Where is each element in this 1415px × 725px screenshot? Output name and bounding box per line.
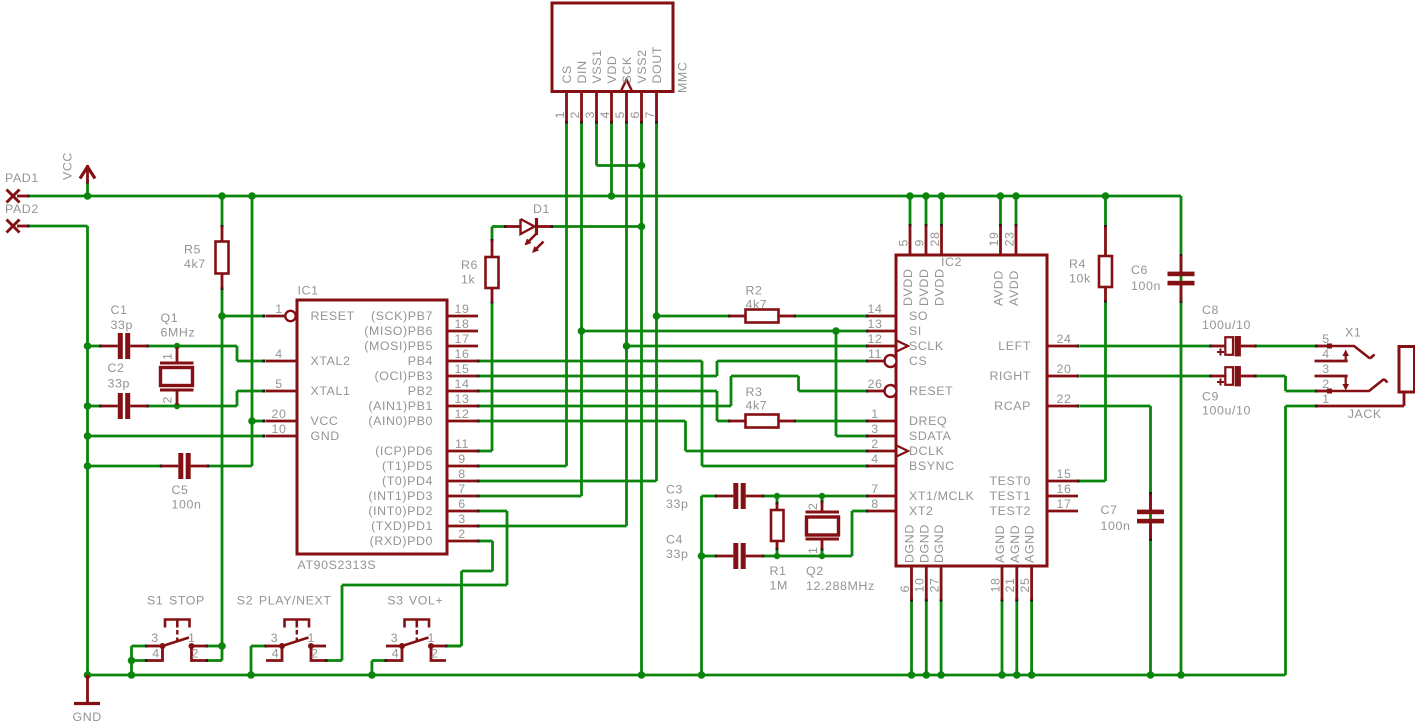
svg-text:17: 17 xyxy=(1057,497,1072,511)
svg-text:18: 18 xyxy=(455,317,470,331)
svg-text:11: 11 xyxy=(455,437,469,451)
svg-text:28: 28 xyxy=(928,232,942,247)
svg-text:13: 13 xyxy=(868,317,883,331)
svg-text:12.288MHz: 12.288MHz xyxy=(806,579,875,593)
svg-text:IC1: IC1 xyxy=(298,284,319,298)
svg-text:MMC: MMC xyxy=(676,62,690,93)
svg-text:(T0)PD4: (T0)PD4 xyxy=(382,474,433,488)
svg-text:8: 8 xyxy=(458,467,466,481)
svg-text:VCC: VCC xyxy=(311,414,339,428)
svg-text:RIGHT: RIGHT xyxy=(989,369,1031,383)
svg-text:7: 7 xyxy=(643,111,657,119)
svg-text:4k7: 4k7 xyxy=(746,399,768,413)
svg-text:21: 21 xyxy=(1003,578,1017,593)
svg-text:C3: C3 xyxy=(666,483,683,497)
svg-text:C7: C7 xyxy=(1101,503,1118,517)
svg-text:AVDD: AVDD xyxy=(1007,270,1021,306)
svg-text:RESET: RESET xyxy=(311,309,355,323)
svg-text:6: 6 xyxy=(628,111,642,119)
svg-text:R2: R2 xyxy=(746,284,763,298)
svg-text:2: 2 xyxy=(806,503,820,511)
svg-text:S3: S3 xyxy=(387,594,403,608)
svg-text:13: 13 xyxy=(455,392,470,406)
svg-text:7: 7 xyxy=(458,482,466,496)
svg-text:4: 4 xyxy=(392,647,400,661)
svg-text:9: 9 xyxy=(912,239,926,247)
svg-text:SI: SI xyxy=(909,324,922,338)
svg-text:23: 23 xyxy=(1002,232,1016,247)
svg-text:2: 2 xyxy=(311,647,319,661)
svg-text:5: 5 xyxy=(896,239,910,247)
svg-text:(ICP)PD6: (ICP)PD6 xyxy=(375,444,433,458)
svg-text:PB4: PB4 xyxy=(408,354,433,368)
svg-text:AVDD: AVDD xyxy=(992,270,1006,306)
svg-text:(MOSI)PB5: (MOSI)PB5 xyxy=(364,339,433,353)
svg-text:4k7: 4k7 xyxy=(746,298,768,312)
svg-text:100n: 100n xyxy=(1101,519,1131,533)
svg-text:AT90S2313S: AT90S2313S xyxy=(298,558,377,572)
svg-text:4: 4 xyxy=(275,347,283,361)
svg-text:GND: GND xyxy=(311,429,340,443)
svg-text:1: 1 xyxy=(427,631,435,645)
svg-text:26: 26 xyxy=(868,377,883,391)
svg-text:22: 22 xyxy=(1057,392,1072,406)
svg-text:VSS1: VSS1 xyxy=(590,49,604,83)
svg-text:R1: R1 xyxy=(770,564,787,578)
svg-text:C9: C9 xyxy=(1202,390,1219,404)
svg-text:15: 15 xyxy=(1057,467,1072,481)
svg-text:8: 8 xyxy=(871,497,879,511)
svg-text:C4: C4 xyxy=(666,533,683,547)
svg-text:33p: 33p xyxy=(108,377,130,391)
svg-text:C6: C6 xyxy=(1131,263,1148,277)
svg-text:SDATA: SDATA xyxy=(909,429,952,443)
svg-text:(RXD)PD0: (RXD)PD0 xyxy=(370,534,433,548)
svg-text:4: 4 xyxy=(871,452,879,466)
svg-text:4k7: 4k7 xyxy=(184,257,206,271)
svg-text:16: 16 xyxy=(1057,482,1072,496)
svg-text:VOL+: VOL+ xyxy=(409,594,443,608)
svg-text:6: 6 xyxy=(458,497,466,511)
svg-text:DIN: DIN xyxy=(575,60,589,83)
svg-text:CS: CS xyxy=(560,65,574,83)
svg-text:RCAP: RCAP xyxy=(994,399,1031,413)
svg-text:3: 3 xyxy=(391,631,399,645)
svg-text:DGND: DGND xyxy=(932,524,946,563)
svg-text:4: 4 xyxy=(272,647,280,661)
svg-text:VDD: VDD xyxy=(605,56,619,84)
svg-text:C8: C8 xyxy=(1202,303,1219,317)
svg-text:Q1: Q1 xyxy=(161,311,179,325)
svg-text:(SCK)PB7: (SCK)PB7 xyxy=(371,309,433,323)
svg-text:2: 2 xyxy=(871,437,879,451)
svg-text:(INT0)PD2: (INT0)PD2 xyxy=(368,504,433,518)
svg-text:17: 17 xyxy=(455,332,470,346)
svg-text:R5: R5 xyxy=(184,243,201,257)
svg-text:10: 10 xyxy=(913,578,927,593)
svg-text:(TXD)PD1: (TXD)PD1 xyxy=(371,519,433,533)
svg-text:5: 5 xyxy=(275,377,283,391)
svg-text:TEST2: TEST2 xyxy=(989,504,1031,518)
svg-text:SCK: SCK xyxy=(620,56,634,83)
svg-text:(T1)PD5: (T1)PD5 xyxy=(382,459,433,473)
svg-text:7: 7 xyxy=(871,482,879,496)
svg-text:JACK: JACK xyxy=(1348,407,1382,421)
svg-text:3: 3 xyxy=(583,111,597,119)
svg-text:1: 1 xyxy=(275,302,283,316)
svg-text:1: 1 xyxy=(1322,392,1330,406)
svg-text:SCLK: SCLK xyxy=(909,339,944,353)
svg-text:2: 2 xyxy=(1322,377,1330,391)
svg-text:3: 3 xyxy=(271,631,279,645)
svg-text:XTAL1: XTAL1 xyxy=(311,384,351,398)
svg-text:3: 3 xyxy=(871,422,879,436)
svg-text:20: 20 xyxy=(1057,362,1072,376)
svg-text:Q2: Q2 xyxy=(806,564,824,578)
svg-text:15: 15 xyxy=(455,362,470,376)
svg-text:12: 12 xyxy=(455,407,470,421)
svg-text:D1: D1 xyxy=(533,202,550,216)
svg-text:XTAL2: XTAL2 xyxy=(311,354,351,368)
svg-text:TEST0: TEST0 xyxy=(989,474,1031,488)
svg-text:DREQ: DREQ xyxy=(909,414,947,428)
svg-text:DCLK: DCLK xyxy=(909,444,945,458)
svg-text:3: 3 xyxy=(1322,362,1330,376)
svg-text:20: 20 xyxy=(272,407,287,421)
svg-text:PAD1: PAD1 xyxy=(5,171,39,185)
svg-text:DVDD: DVDD xyxy=(933,268,947,306)
svg-text:25: 25 xyxy=(1018,578,1032,593)
svg-text:DVDD: DVDD xyxy=(901,268,915,306)
svg-text:24: 24 xyxy=(1057,332,1072,346)
svg-text:1: 1 xyxy=(553,111,567,119)
svg-text:14: 14 xyxy=(868,302,883,316)
svg-text:10: 10 xyxy=(272,422,287,436)
svg-text:6: 6 xyxy=(898,585,912,593)
svg-text:R6: R6 xyxy=(461,258,478,272)
svg-text:4: 4 xyxy=(1322,347,1330,361)
svg-text:DVDD: DVDD xyxy=(917,268,931,306)
svg-text:2: 2 xyxy=(161,396,175,404)
svg-text:1: 1 xyxy=(161,353,175,361)
svg-text:2: 2 xyxy=(192,647,200,661)
svg-text:R4: R4 xyxy=(1069,257,1086,271)
svg-text:11: 11 xyxy=(868,347,882,361)
svg-text:9: 9 xyxy=(458,452,466,466)
svg-text:2: 2 xyxy=(458,527,466,541)
svg-text:C5: C5 xyxy=(172,483,189,497)
svg-text:33p: 33p xyxy=(111,318,133,332)
svg-text:VSS2: VSS2 xyxy=(635,49,649,83)
svg-text:6MHz: 6MHz xyxy=(161,326,196,340)
svg-text:100n: 100n xyxy=(172,498,202,512)
svg-text:GND: GND xyxy=(73,710,102,724)
svg-text:27: 27 xyxy=(928,578,942,593)
svg-text:19: 19 xyxy=(455,302,470,316)
svg-text:BSYNC: BSYNC xyxy=(909,459,955,473)
svg-text:RESET: RESET xyxy=(909,384,953,398)
svg-text:1M: 1M xyxy=(770,579,788,593)
svg-text:12: 12 xyxy=(868,332,883,346)
svg-text:IC2: IC2 xyxy=(941,255,962,269)
svg-text:1: 1 xyxy=(307,631,315,645)
svg-text:1: 1 xyxy=(871,407,879,421)
svg-text:(AIN0)PB0: (AIN0)PB0 xyxy=(368,414,433,428)
svg-text:2: 2 xyxy=(568,111,582,119)
svg-text:(AIN1)PB1: (AIN1)PB1 xyxy=(368,399,433,413)
svg-text:XT2: XT2 xyxy=(909,504,934,518)
svg-text:VCC: VCC xyxy=(61,152,75,180)
svg-text:100u/10: 100u/10 xyxy=(1202,404,1251,418)
svg-text:SO: SO xyxy=(909,309,928,323)
svg-text:5: 5 xyxy=(613,111,627,119)
svg-text:DGND: DGND xyxy=(917,524,931,563)
svg-text:(OCI)PB3: (OCI)PB3 xyxy=(374,369,433,383)
svg-text:18: 18 xyxy=(988,578,1002,593)
svg-text:33p: 33p xyxy=(666,547,688,561)
svg-text:10k: 10k xyxy=(1069,272,1091,286)
svg-text:100u/10: 100u/10 xyxy=(1202,318,1251,332)
svg-text:3: 3 xyxy=(458,512,466,526)
svg-text:19: 19 xyxy=(987,232,1001,247)
svg-text:C2: C2 xyxy=(108,361,125,375)
svg-text:XT1/MCLK: XT1/MCLK xyxy=(909,489,975,503)
svg-text:AGND: AGND xyxy=(1008,525,1022,563)
svg-text:1: 1 xyxy=(806,547,820,555)
svg-text:DOUT: DOUT xyxy=(650,46,664,84)
svg-text:16: 16 xyxy=(455,347,470,361)
svg-text:X1: X1 xyxy=(1345,326,1361,340)
svg-text:STOP: STOP xyxy=(169,594,205,608)
svg-text:LEFT: LEFT xyxy=(998,339,1031,353)
svg-text:5: 5 xyxy=(1322,332,1330,346)
svg-text:DGND: DGND xyxy=(903,524,917,563)
svg-text:PAD2: PAD2 xyxy=(5,202,39,216)
svg-text:1k: 1k xyxy=(461,273,475,287)
svg-text:2: 2 xyxy=(431,647,439,661)
svg-text:CS: CS xyxy=(909,354,927,368)
svg-text:(INT1)PD3: (INT1)PD3 xyxy=(368,489,433,503)
svg-text:(MISO)PB6: (MISO)PB6 xyxy=(364,324,433,338)
svg-text:14: 14 xyxy=(455,377,470,391)
svg-text:4: 4 xyxy=(598,111,612,119)
svg-text:3: 3 xyxy=(151,631,159,645)
svg-text:PLAY/NEXT: PLAY/NEXT xyxy=(259,594,332,608)
svg-text:AGND: AGND xyxy=(993,525,1007,563)
svg-text:100n: 100n xyxy=(1131,279,1161,293)
svg-text:S1: S1 xyxy=(147,594,163,608)
svg-text:AGND: AGND xyxy=(1023,525,1037,563)
svg-text:R3: R3 xyxy=(746,385,763,399)
svg-text:S2: S2 xyxy=(237,594,253,608)
svg-text:1: 1 xyxy=(188,631,196,645)
svg-text:C1: C1 xyxy=(111,303,128,317)
svg-text:TEST1: TEST1 xyxy=(989,489,1031,503)
svg-text:4: 4 xyxy=(152,647,160,661)
svg-text:PB2: PB2 xyxy=(408,384,433,398)
svg-text:33p: 33p xyxy=(666,497,688,511)
